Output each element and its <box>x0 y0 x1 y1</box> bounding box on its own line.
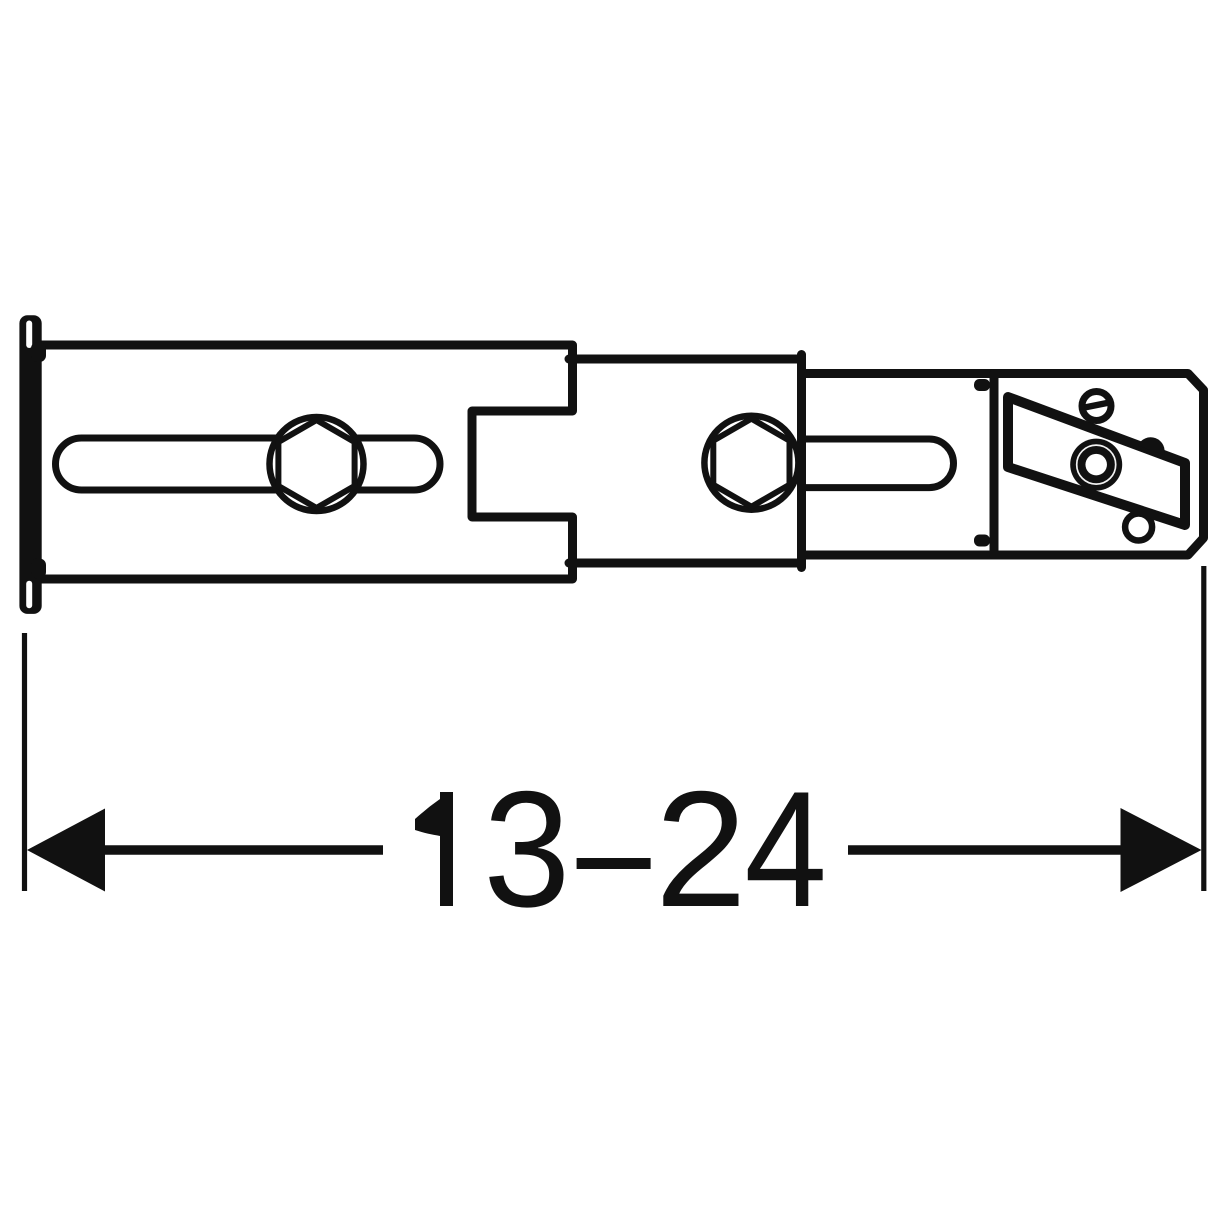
wall plate upper hook <box>31 342 46 362</box>
clip tab upper (at piece3/piece4 joint) <box>974 379 990 391</box>
end block (piece 4) outline with chamfered right corners <box>994 374 1204 556</box>
angled strap inside end block <box>1008 397 1185 525</box>
wall plate lower hook <box>31 559 46 579</box>
middle sleeve (piece 2) right edge <box>797 355 806 568</box>
wall plate bar <box>19 315 41 614</box>
svg-text:2: 2 <box>655 757 747 941</box>
nut / washer rings <box>1070 439 1122 491</box>
outer bracket rail (piece 1) with C-notch on right end <box>30 345 573 579</box>
bolt circle 1 <box>270 417 364 511</box>
left extension line <box>22 633 27 891</box>
wall plate lower slit <box>26 581 32 609</box>
dimension line left segment <box>98 845 383 855</box>
slot 1 (left slotted hole) <box>56 438 441 490</box>
middle sleeve (piece 2) bottom edge <box>569 559 802 568</box>
inner rail (piece 3) top edge <box>802 369 995 378</box>
bump on strap top edge <box>1138 437 1165 455</box>
wall plate upper slit <box>26 321 32 349</box>
dimension text 13-24 <box>415 757 827 942</box>
svg-text:4: 4 <box>744 758 827 942</box>
middle sleeve (piece 2) top edge <box>569 355 802 364</box>
detent circle below strap <box>1125 514 1152 541</box>
slot 2 (right slotted hole, open at left) <box>802 439 954 488</box>
bolt circle 2 <box>704 416 798 510</box>
left arrowhead <box>27 809 105 892</box>
svg-text:3: 3 <box>483 757 570 942</box>
clip tab lower (at piece3/piece4 joint) <box>974 535 990 547</box>
hex nut 1 <box>278 420 354 508</box>
dimension line right segment <box>848 845 1128 855</box>
slotted screw head <box>1082 392 1111 421</box>
right extension line <box>1201 566 1206 891</box>
hex nut 2 <box>713 419 789 507</box>
right arrowhead <box>1121 808 1202 892</box>
inner rail (piece 3) bottom edge <box>802 551 995 560</box>
